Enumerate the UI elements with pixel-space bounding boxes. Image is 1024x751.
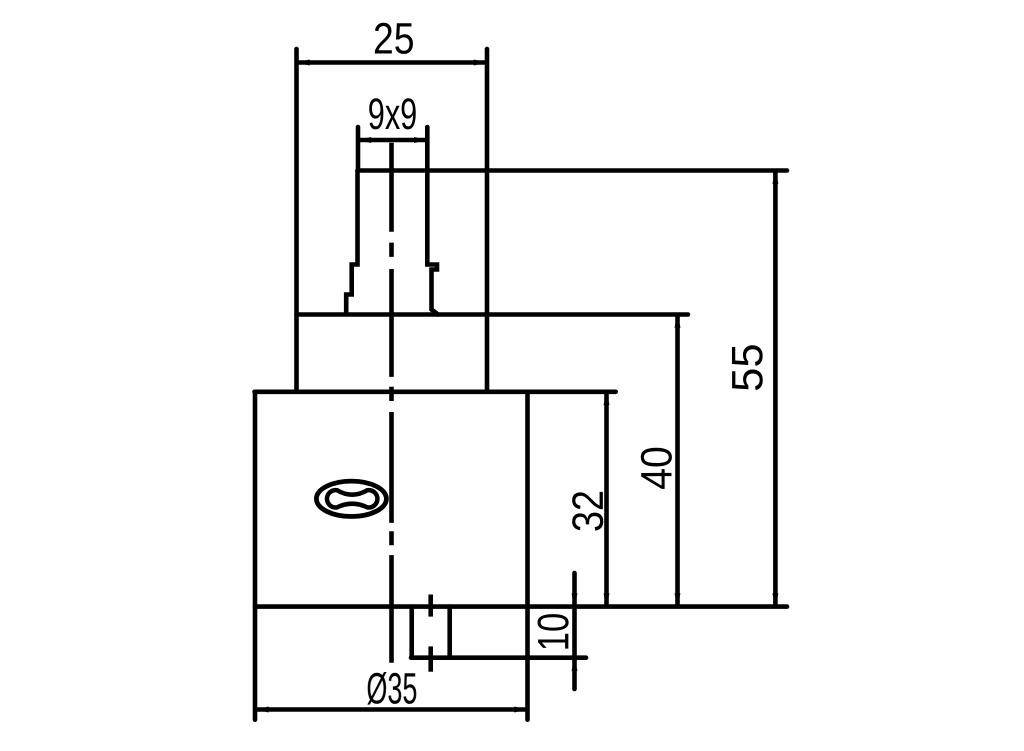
dimension line 9x9 — [359, 138, 426, 143]
dimension line 25 — [298, 60, 486, 65]
shoulder line / extension line 40 top — [297, 312, 689, 317]
body top edge / extension line 32 top — [255, 389, 616, 394]
arrowhead 40 bottom — [675, 593, 681, 606]
tenon right stepped side — [427, 171, 438, 315]
arrowhead 32 bottom — [604, 593, 610, 606]
svg-text:10: 10 — [529, 613, 578, 652]
arrowhead 10 upper pointing down — [572, 593, 578, 606]
arrowhead 55 top — [772, 171, 778, 184]
extension line 9x9 right — [425, 127, 430, 169]
arrowhead d35 left — [256, 707, 269, 713]
logo outer ellipse — [316, 481, 386, 516]
body bottom edge / extension line 55-40-32-10 bottom — [255, 604, 787, 609]
svg-text:25: 25 — [373, 14, 415, 63]
tab left edge — [409, 607, 414, 658]
center line vertical dash-dot — [389, 143, 394, 663]
arrowhead 9x9 right — [414, 137, 427, 143]
arrowhead 9x9 left — [358, 137, 371, 143]
arrowhead 40 top — [675, 315, 681, 328]
arrowhead 55 bottom — [772, 593, 778, 606]
dimension line d35 — [257, 707, 526, 712]
body right edge / extension line d35 right — [525, 392, 530, 720]
extension line 25 right / collar right edge — [485, 49, 490, 392]
svg-text:Ø35: Ø35 — [366, 664, 417, 713]
svg-text:32: 32 — [564, 490, 613, 532]
tab right edge — [447, 607, 452, 658]
svg-text:40: 40 — [632, 446, 681, 490]
dimension line 55 — [773, 172, 778, 606]
tenon top edge / extension line 55 top — [358, 168, 788, 173]
body left edge / extension line d35 left — [253, 392, 258, 720]
arrowhead 10 lower pointing up — [572, 658, 578, 671]
arrowhead 32 top — [604, 392, 610, 405]
tab bottom edge / extension line 10 bottom — [411, 655, 586, 660]
arrowhead 25 left — [297, 60, 310, 66]
dimension line 32 — [604, 393, 609, 606]
svg-text:55: 55 — [723, 343, 772, 392]
tab center line dash lower — [428, 646, 433, 671]
extension line 25 left / collar left edge — [294, 49, 299, 392]
dimension line 10 — [572, 573, 577, 689]
tenon left stepped side — [346, 171, 357, 314]
arrowhead 25 right — [474, 60, 487, 66]
svg-text:9x9: 9x9 — [368, 90, 418, 139]
tab center line dash upper — [428, 595, 433, 617]
arrowhead d35 right — [514, 707, 527, 713]
logo inner peanut — [327, 490, 377, 507]
extension line 9x9 left — [356, 127, 361, 169]
dimension line 40 — [675, 316, 680, 606]
